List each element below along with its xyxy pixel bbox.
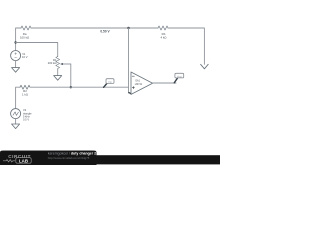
junction dot wiper/long wire bbox=[70, 86, 72, 88]
voltage source V1 bbox=[11, 51, 21, 61]
wire V2 riser bbox=[16, 87, 20, 108]
svg-text:200 kΩ: 200 kΩ bbox=[48, 61, 57, 65]
ground below V1 bbox=[12, 68, 20, 73]
logo zigzag bbox=[3, 160, 15, 162]
svg-text:Vin: Vin bbox=[108, 80, 112, 84]
flag Vout on output bbox=[174, 78, 177, 83]
voltage source V2 bbox=[11, 109, 21, 119]
svg-text:0.5 V: 0.5 V bbox=[23, 118, 29, 122]
wire long horizontal to op-amp input bbox=[30, 86, 129, 88]
svg-text:http://www.circuitlab.com/c/4d: http://www.circuitlab.com/c/4dg75 bbox=[48, 156, 90, 160]
pin stub op-amp lower-left bbox=[129, 93, 132, 94]
wire branch V1 node to potentiometer top bbox=[16, 43, 58, 57]
svg-text:100 kΩ: 100 kΩ bbox=[20, 35, 30, 39]
svg-text:LAB: LAB bbox=[19, 158, 28, 163]
wire inverting input from top node down bbox=[128, 28, 130, 93]
node A junction dot on V1 rail bbox=[14, 41, 16, 43]
watermark bar bbox=[0, 151, 220, 165]
wire R1 bottom to ground bbox=[57, 69, 59, 75]
wire top-left from V1 node to Ra bbox=[16, 28, 21, 51]
wire wiper down to summing node bbox=[70, 64, 72, 87]
potentiometer R1 bbox=[56, 57, 60, 70]
op-amp OA1 LM741 bbox=[131, 72, 153, 94]
svg-text:1 kΩ: 1 kΩ bbox=[22, 93, 29, 97]
svg-text:0.50 V: 0.50 V bbox=[100, 29, 110, 33]
resistor Rb bbox=[158, 26, 168, 30]
wire top middle Ra to Rb bbox=[31, 27, 158, 29]
wire V2 to ground bbox=[15, 119, 17, 124]
flag Vin on non-inverting line bbox=[104, 84, 107, 88]
wire V1 to ground bbox=[15, 61, 17, 68]
wire op-amp output bbox=[153, 82, 176, 84]
svg-text:4 kΩ: 4 kΩ bbox=[160, 35, 167, 39]
logo LAB box bbox=[16, 158, 31, 164]
svg-text:Vout: Vout bbox=[177, 74, 182, 78]
svg-text:LM741: LM741 bbox=[135, 83, 143, 86]
junction dot top wire / inverting branch bbox=[127, 27, 129, 29]
svg-text:10 V: 10 V bbox=[22, 55, 28, 59]
resistor R2 bbox=[20, 85, 30, 89]
wiper arrow of R1 bbox=[63, 63, 71, 65]
ground below R1 bbox=[54, 76, 62, 81]
wire top-right Rb to corner and down bbox=[168, 28, 204, 64]
resistor Ra bbox=[21, 26, 31, 30]
ground below V2 bbox=[12, 124, 20, 129]
ground arrow top right bbox=[201, 64, 209, 69]
